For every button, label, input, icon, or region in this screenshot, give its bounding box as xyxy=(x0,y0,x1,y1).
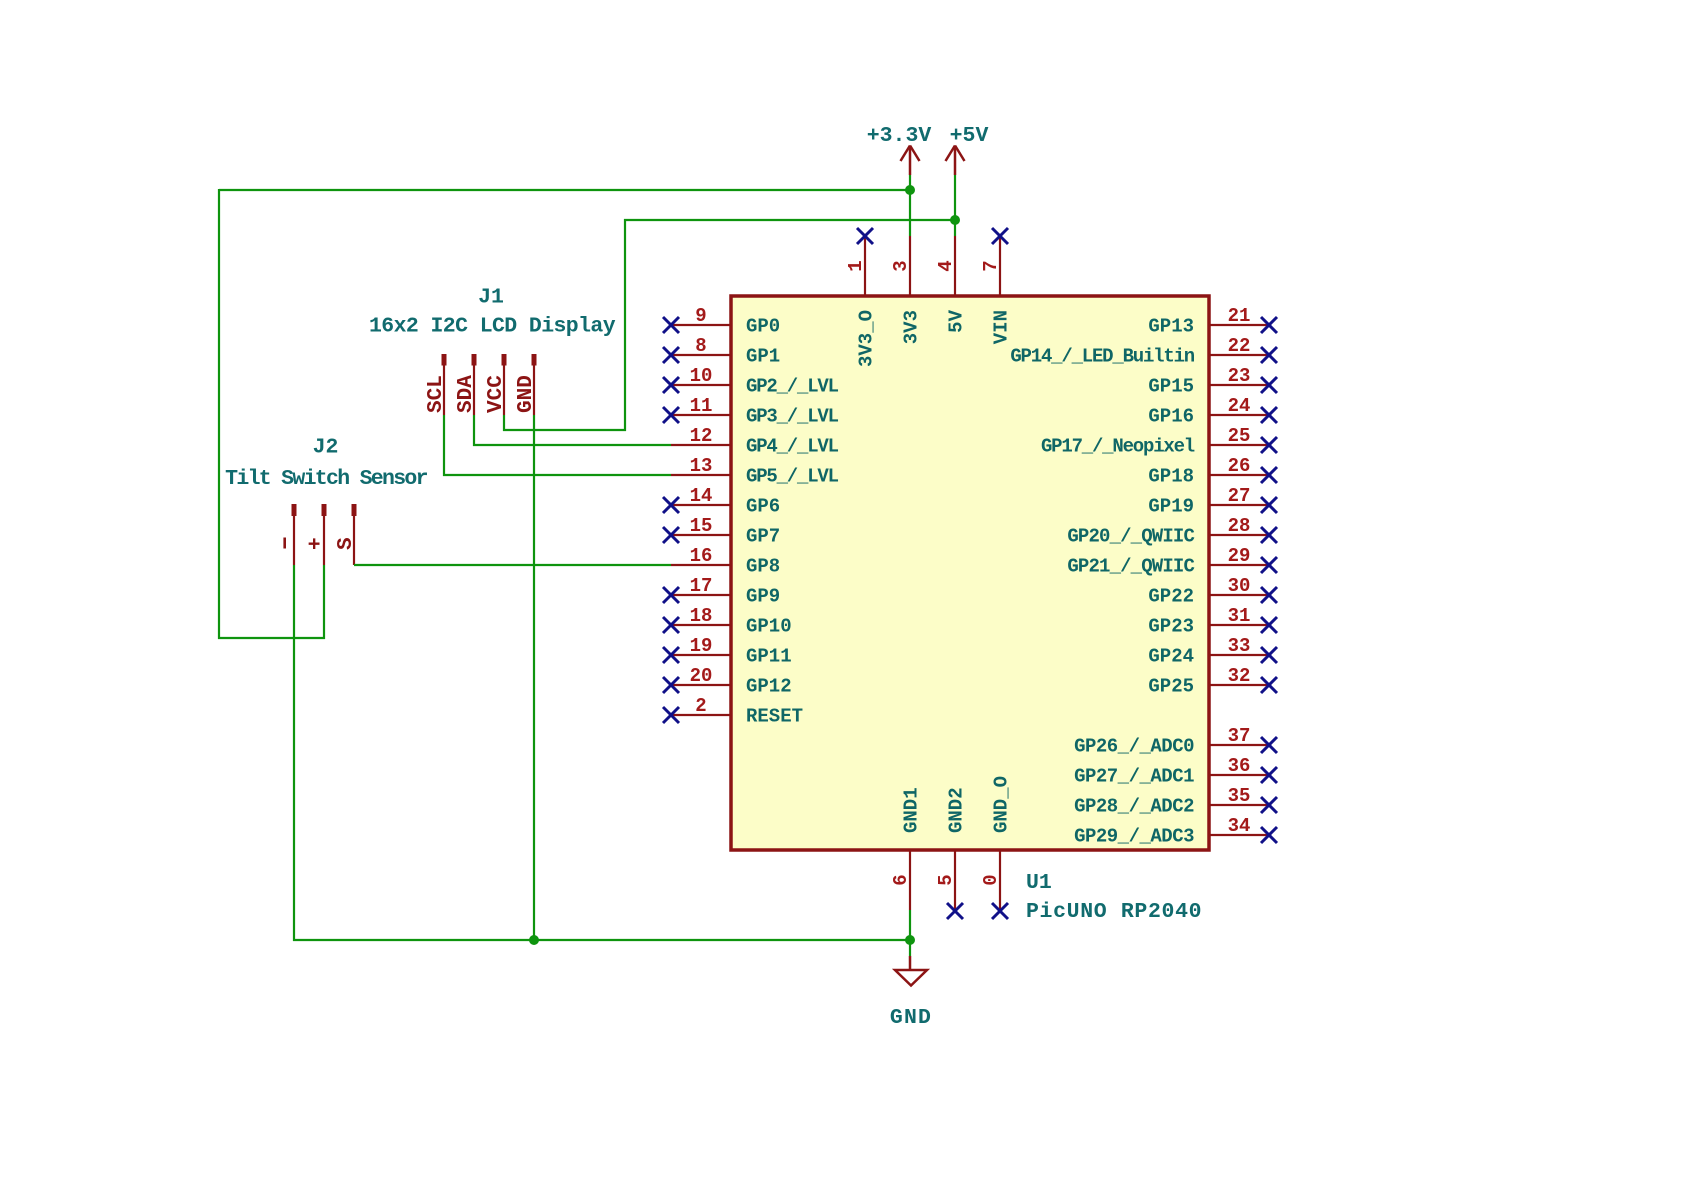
svg-text:3: 3 xyxy=(890,260,912,271)
svg-text:GP22: GP22 xyxy=(1148,586,1194,608)
svg-text:GND: GND xyxy=(890,1006,932,1030)
svg-text:11: 11 xyxy=(690,395,713,417)
svg-text:32: 32 xyxy=(1228,665,1251,687)
svg-text:21: 21 xyxy=(1228,305,1251,327)
U1 pin 1 3V3_O (top) xyxy=(845,228,878,367)
U1 pin 20 GP12 (left) xyxy=(663,665,792,698)
svg-text:14: 14 xyxy=(690,485,713,507)
svg-text:16x2 I2C LCD Display: 16x2 I2C LCD Display xyxy=(369,315,616,339)
wire pin4 5V to +5V xyxy=(954,175,956,236)
svg-text:20: 20 xyxy=(690,665,713,687)
svg-text:15: 15 xyxy=(690,515,713,537)
U1 pin 17 GP9 (left) xyxy=(663,575,780,608)
U1 pin 0 GND_O (bottom) xyxy=(980,776,1013,919)
U1 pin 34 GP29_/_ADC3 (right) xyxy=(1074,815,1277,848)
J1 pin SCL xyxy=(425,354,448,415)
svg-text:GP27_/_ADC1: GP27_/_ADC1 xyxy=(1074,766,1194,788)
power symbol +3.3V xyxy=(867,124,932,175)
svg-text:PicUNO RP2040: PicUNO RP2040 xyxy=(1026,900,1202,924)
wire J1 VCC stub xyxy=(503,415,505,431)
svg-text:GP25: GP25 xyxy=(1148,676,1194,698)
svg-text:GP11: GP11 xyxy=(746,646,792,668)
svg-text:SDA: SDA xyxy=(455,375,478,413)
svg-text:5: 5 xyxy=(935,874,957,885)
svg-text:GP14_/_LED_Builtin: GP14_/_LED_Builtin xyxy=(1010,346,1194,368)
wire to J2 + pin horizontal xyxy=(218,637,325,639)
U1 pin 19 GP11 (left) xyxy=(663,635,792,668)
svg-text:GP18: GP18 xyxy=(1148,466,1194,488)
svg-text:6: 6 xyxy=(890,874,912,885)
U1 pin 15 GP7 (left) xyxy=(663,515,780,548)
J2 pin S xyxy=(335,504,358,565)
U1 pin 9 GP0 (left) xyxy=(663,305,780,338)
svg-text:GP20_/_QWIIC: GP20_/_QWIIC xyxy=(1067,526,1194,548)
svg-text:GP26_/_ADC0: GP26_/_ADC0 xyxy=(1074,736,1194,758)
svg-text:8: 8 xyxy=(695,335,706,357)
svg-text:GP21_/_QWIIC: GP21_/_QWIIC xyxy=(1067,556,1194,578)
svg-text:VCC: VCC xyxy=(485,375,508,413)
wire VCC horizontal xyxy=(503,429,626,431)
U1 pin 31 GP23 (right) xyxy=(1148,605,1277,638)
svg-text:33: 33 xyxy=(1228,635,1251,657)
U1 pin 6 GND1 (bottom) xyxy=(890,787,923,910)
svg-text:GP0: GP0 xyxy=(746,316,780,338)
svg-text:19: 19 xyxy=(690,635,713,657)
U1 pin 37 GP26_/_ADC0 (right) xyxy=(1074,725,1277,758)
wire J2 S to GP8 xyxy=(354,564,671,566)
J1 pin VCC xyxy=(485,354,508,415)
svg-text:4: 4 xyxy=(935,260,957,271)
U1 pin 22 GP14_/_LED_Builtin (right) xyxy=(1010,335,1277,368)
U1 pin 32 GP25 (right) xyxy=(1148,665,1277,698)
svg-text:GP16: GP16 xyxy=(1148,406,1194,428)
svg-text:3V3: 3V3 xyxy=(901,310,923,344)
svg-text:36: 36 xyxy=(1228,755,1251,777)
U1 pin 29 GP21_/_QWIIC (right) xyxy=(1067,545,1277,578)
svg-text:GP6: GP6 xyxy=(746,496,780,518)
svg-text:GP9: GP9 xyxy=(746,586,780,608)
svg-text:GP10: GP10 xyxy=(746,616,792,638)
junction +5V xyxy=(950,215,960,225)
svg-text:GP19: GP19 xyxy=(1148,496,1194,518)
svg-text:+3.3V: +3.3V xyxy=(867,124,932,148)
U1 pin 21 GP13 (right) xyxy=(1148,305,1277,338)
svg-text:25: 25 xyxy=(1228,425,1251,447)
U1 pin 14 GP6 (left) xyxy=(663,485,780,518)
svg-text:2: 2 xyxy=(695,695,706,717)
svg-text:GP12: GP12 xyxy=(746,676,792,698)
svg-text:Tilt Switch Sensor: Tilt Switch Sensor xyxy=(225,467,427,491)
svg-text:GP17_/_Neopixel: GP17_/_Neopixel xyxy=(1041,436,1195,458)
svg-text:J2: J2 xyxy=(313,436,339,460)
svg-text:GND1: GND1 xyxy=(901,787,923,833)
U1 pin 12 GP4_/_LVL (left) xyxy=(671,425,839,458)
U1 pin 35 GP28_/_ADC2 (right) xyxy=(1074,785,1277,818)
U1 pin 30 GP22 (right) xyxy=(1148,575,1277,608)
svg-text:GP23: GP23 xyxy=(1148,616,1194,638)
U1 pin 27 GP19 (right) xyxy=(1148,485,1277,518)
svg-text:27: 27 xyxy=(1228,485,1251,507)
J1 pin SDA xyxy=(455,354,478,415)
svg-text:GP7: GP7 xyxy=(746,526,780,548)
wire SDA to GP4 xyxy=(473,444,671,446)
U1 pin 23 GP15 (right) xyxy=(1148,365,1277,398)
ground symbol GND xyxy=(890,956,932,1030)
svg-text:GP24: GP24 xyxy=(1148,646,1194,668)
svg-text:29: 29 xyxy=(1228,545,1251,567)
junction J1 GND / ground rail xyxy=(529,935,539,945)
svg-text:24: 24 xyxy=(1228,395,1251,417)
wire J2 - vertical xyxy=(293,565,295,941)
wire J1 GND vertical xyxy=(533,415,535,940)
svg-text:GP1: GP1 xyxy=(746,346,780,368)
svg-text:U1: U1 xyxy=(1026,871,1052,895)
wire SCL to GP5 xyxy=(443,474,671,476)
U1 pin 18 GP10 (left) xyxy=(663,605,792,638)
wire GND1 to ground xyxy=(909,910,911,956)
junction +3.3V rail xyxy=(905,185,915,195)
svg-text:18: 18 xyxy=(690,605,713,627)
wire pin3 3V3 to +3.3V xyxy=(909,175,911,236)
svg-text:10: 10 xyxy=(690,365,713,387)
svg-text:GP15: GP15 xyxy=(1148,376,1194,398)
junction ground rail xyxy=(905,935,915,945)
svg-text:RESET: RESET xyxy=(746,706,803,728)
svg-text:+5V: +5V xyxy=(950,124,989,148)
wire +3.3V horizontal rail xyxy=(219,189,910,191)
U1 pin 4 5V (top) xyxy=(935,236,968,333)
U1 pin 7 VIN (top) xyxy=(980,228,1013,344)
svg-text:GP13: GP13 xyxy=(1148,316,1194,338)
U1 pin 24 GP16 (right) xyxy=(1148,395,1277,428)
svg-text:GP29_/_ADC3: GP29_/_ADC3 xyxy=(1074,826,1194,848)
power symbol +5V xyxy=(946,124,989,175)
svg-text:31: 31 xyxy=(1228,605,1251,627)
svg-text:GP4_/_LVL: GP4_/_LVL xyxy=(746,436,839,458)
svg-text:SCL: SCL xyxy=(425,375,448,413)
svg-text:37: 37 xyxy=(1228,725,1251,747)
U1 pin 26 GP18 (right) xyxy=(1148,455,1277,488)
U1 pin 25 GP17_/_Neopixel (right) xyxy=(1041,425,1277,458)
svg-text:GP8: GP8 xyxy=(746,556,780,578)
svg-text:30: 30 xyxy=(1228,575,1251,597)
IC U1 body xyxy=(731,296,1209,850)
svg-text:GP3_/_LVL: GP3_/_LVL xyxy=(746,406,839,428)
svg-text:7: 7 xyxy=(980,260,1002,271)
svg-text:9: 9 xyxy=(695,305,706,327)
wire +3.3V left vertical xyxy=(218,189,220,639)
J2 pin + xyxy=(305,504,328,565)
wire J2 + pin vertical xyxy=(323,565,325,639)
J2 pin - xyxy=(285,504,294,565)
U1 pin 2 RESET (left) xyxy=(663,695,803,728)
wire ground horizontal xyxy=(293,939,910,941)
svg-text:GND: GND xyxy=(515,375,538,413)
svg-text:3V3_O: 3V3_O xyxy=(856,310,878,367)
svg-text:5V: 5V xyxy=(946,309,968,332)
svg-text:13: 13 xyxy=(690,455,713,477)
svg-text:J1: J1 xyxy=(478,286,504,310)
svg-text:23: 23 xyxy=(1228,365,1251,387)
wire J1 SDA stub xyxy=(473,415,475,446)
wire +5V horizontal xyxy=(624,219,956,221)
svg-text:17: 17 xyxy=(690,575,713,597)
U1 pin 8 GP1 (left) xyxy=(663,335,780,368)
svg-text:GP2_/_LVL: GP2_/_LVL xyxy=(746,376,839,398)
svg-text:12: 12 xyxy=(690,425,713,447)
svg-text:GND_O: GND_O xyxy=(991,776,1013,833)
U1 pin 33 GP24 (right) xyxy=(1148,635,1277,668)
svg-text:22: 22 xyxy=(1228,335,1251,357)
svg-text:35: 35 xyxy=(1228,785,1251,807)
J1 pin GND xyxy=(515,354,538,415)
svg-text:34: 34 xyxy=(1228,815,1251,837)
U1 pin 11 GP3_/_LVL (left) xyxy=(663,395,839,428)
svg-text:GP5_/_LVL: GP5_/_LVL xyxy=(746,466,839,488)
svg-text:S: S xyxy=(335,537,358,550)
U1 pin 5 GND2 (bottom) xyxy=(935,787,968,919)
U1 pin 28 GP20_/_QWIIC (right) xyxy=(1067,515,1277,548)
svg-text:16: 16 xyxy=(690,545,713,567)
wire J1 SCL stub xyxy=(443,415,445,476)
U1 pin 13 GP5_/_LVL (left) xyxy=(671,455,839,488)
svg-text:1: 1 xyxy=(845,260,867,271)
svg-text:GND2: GND2 xyxy=(946,787,968,833)
svg-text:VIN: VIN xyxy=(991,310,1013,344)
U1 pin 36 GP27_/_ADC1 (right) xyxy=(1074,755,1277,788)
U1 pin 16 GP8 (left) xyxy=(671,545,780,578)
wire +5V vertical xyxy=(624,219,626,431)
svg-text:26: 26 xyxy=(1228,455,1251,477)
svg-text:+: + xyxy=(305,537,328,550)
U1 pin 3 3V3 (top) xyxy=(890,236,923,344)
U1 pin 10 GP2_/_LVL (left) xyxy=(663,365,839,398)
svg-text:GP28_/_ADC2: GP28_/_ADC2 xyxy=(1074,796,1194,818)
svg-text:28: 28 xyxy=(1228,515,1251,537)
svg-text:0: 0 xyxy=(980,874,1002,885)
